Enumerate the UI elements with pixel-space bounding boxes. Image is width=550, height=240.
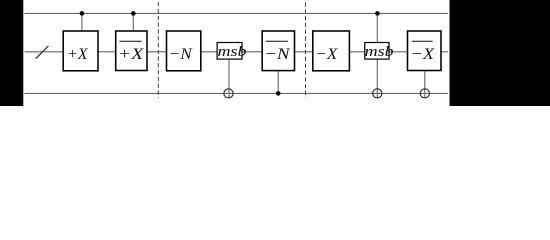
gate +X-bar (overline +X) <box>116 31 147 71</box>
svg-text:+X: +X <box>118 45 145 63</box>
left black border mask <box>0 0 23 106</box>
gate msb 2 <box>365 43 395 61</box>
bus slash on wire q1 <box>36 46 49 59</box>
control wire from dot 2 to gate +X-bar <box>132 13 134 31</box>
gate -N-bar (overline -N) <box>262 31 294 71</box>
barrier 2 (dashed separator) <box>305 2 307 98</box>
control wire from gate msb 1 to XOR target 1 <box>228 59 230 98</box>
control wire from gate -N-bar to dot 3 <box>277 71 279 94</box>
control dot 2 on wire q0 <box>131 11 136 16</box>
XOR target 3 on wire q2 <box>420 89 429 98</box>
wire q1 (middle bus wire) <box>25 51 448 53</box>
control wire from gate -X-bar to XOR target 3 <box>424 71 426 98</box>
control dot 4 on wire q0 <box>375 11 380 16</box>
gate -N <box>167 31 201 71</box>
svg-text:−N: −N <box>264 45 291 63</box>
control dot 1 on wire q0 <box>80 11 85 16</box>
control wire from dot 1 to gate +X <box>81 13 83 31</box>
svg-text:−X: −X <box>315 45 338 63</box>
gate -X-bar (overline -X) <box>408 31 442 71</box>
right black border mask <box>450 0 550 106</box>
barrier 1 (dashed separator) <box>157 2 159 98</box>
control dot 3 on wire q2 <box>276 91 281 96</box>
wire q0 (top qubit wire) <box>25 12 448 14</box>
gate -X <box>313 31 350 71</box>
XOR target 1 on wire q2 <box>224 89 233 98</box>
svg-text:msb: msb <box>365 44 395 60</box>
control wire from dot 4 to gate msb 2 <box>376 13 378 42</box>
svg-text:−N: −N <box>169 45 193 63</box>
XOR target 2 on wire q2 <box>373 89 382 98</box>
gate msb 1 <box>217 43 247 61</box>
wire q2 (bottom qubit wire) <box>25 92 448 94</box>
control wire from gate msb 2 to XOR target 2 <box>376 59 378 98</box>
gate +X <box>63 31 98 71</box>
svg-text:−X: −X <box>411 45 436 63</box>
svg-text:+X: +X <box>67 45 89 63</box>
svg-text:msb: msb <box>218 44 248 60</box>
